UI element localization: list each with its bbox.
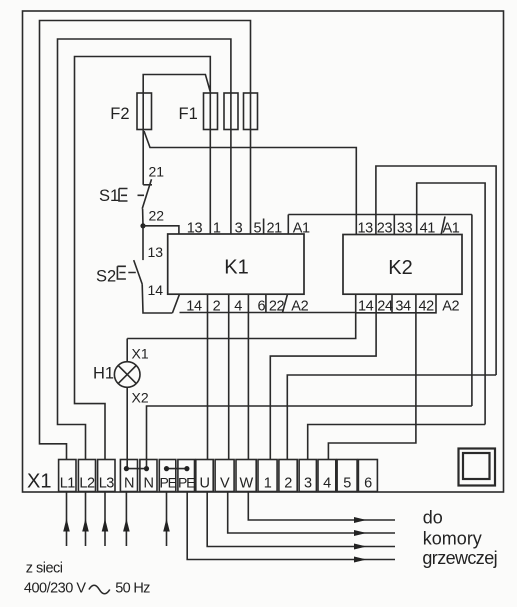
terminal X1:L2 [78,460,95,492]
terminal X1:PE1 [159,460,176,492]
terminal X1:L1 [59,460,76,492]
terminal X1:6 [358,460,377,492]
wire F2 tap from L3 phase [143,75,210,94]
svg-text:S1: S1 [99,187,119,205]
S1 actuator E [119,189,144,202]
svg-text:6: 6 [258,299,266,315]
svg-text:13: 13 [148,244,164,260]
terminal X1:5 [337,460,357,492]
K1 tick 5|21 top [263,219,265,235]
svg-text:N: N [144,476,154,492]
wire latch row (K1:14 - K1:A2 - K2:14) [180,312,356,314]
junction dot PE1 [164,466,169,471]
svg-text:4: 4 [234,299,242,315]
K2 wire 41 stub up [417,183,485,425]
svg-text:grzewczej: grzewczej [422,548,497,568]
node A junction dot [140,223,145,228]
arrowhead up L3 [102,519,109,532]
fuse F1 pole1 [204,93,218,130]
contactor K2 box [343,235,462,295]
arrowhead right PE [354,557,367,563]
K1 tick 6|22 bottom [265,294,267,312]
lamp H1 [114,362,140,388]
svg-text:U: U [200,476,210,492]
wire node to K1:13 [143,226,179,234]
svg-text:21: 21 [267,221,283,237]
switch S2 (NO start button) [142,226,144,260]
fuse F1 pole3 [244,93,258,130]
svg-text:L3: L3 [99,476,115,492]
wire F2 branch to K2:13 [144,131,356,235]
wire K1:6 to X1:W [247,294,249,459]
wire U to heating chamber [207,492,395,547]
terminal X1:N1 [120,460,137,492]
svg-text:4: 4 [323,476,331,492]
svg-text:do: do [423,508,443,528]
jumper N-N [126,468,146,470]
svg-text:50 Hz: 50 Hz [115,581,150,597]
switch S1 (NC stop button) [143,184,152,186]
svg-text:21: 21 [149,164,165,180]
svg-text:S2: S2 [96,268,116,286]
svg-text:F2: F2 [110,105,129,123]
K2 tick 23|33 top [393,215,395,235]
wire K2:24 to X1:1 [270,294,376,459]
svg-text:22: 22 [149,208,165,224]
wire F1 pole2 to K1:3 [230,93,232,234]
wire N bus X1:N2 to K2:A1 [147,406,472,469]
svg-text:41: 41 [420,221,436,237]
terminal X1:U [196,460,213,492]
PE symbol square-in-square [459,449,496,486]
svg-text:komory: komory [423,529,482,549]
svg-text:24: 24 [377,299,393,315]
svg-text:V: V [220,476,230,492]
wire up-arrow L3 [104,492,106,546]
svg-text:34: 34 [395,299,411,315]
wire up-arrow L1 [66,492,68,546]
svg-text:3: 3 [304,476,312,492]
svg-text:X1: X1 [132,346,149,362]
svg-text:L1: L1 [60,476,76,492]
wire V to heating chamber [228,492,395,533]
border frame [23,11,504,492]
jumper PE-PE [167,468,187,470]
terminal X1:2 [279,460,297,492]
wire up-arrow L2 [85,492,87,546]
wire up-arrow PE [166,492,168,546]
svg-text:W: W [240,476,254,492]
arrowhead up N [123,519,130,532]
junction dot N1 [124,466,129,471]
wire PE2 to heating chamber [187,492,395,560]
svg-text:A1: A1 [293,221,310,237]
wire K2:A1 down right side to N bus [471,215,473,407]
wire slash S2/latch to K1:14 [172,294,179,313]
terminal X1:1 [258,460,277,492]
K1 wire A2 slash [283,294,288,312]
sine symbol 50 Hz [89,585,110,594]
wire K2:23 branch down to X1:2 [287,375,496,460]
wire F2 to S1 [142,93,144,185]
svg-text:A1: A1 [443,221,460,237]
svg-text:A2: A2 [291,299,308,315]
svg-text:14: 14 [148,282,164,298]
svg-text:6: 6 [364,476,372,492]
svg-text:z sieci: z sieci [26,560,63,576]
wire F1 pole3 to K1:5 [250,93,252,234]
svg-text:K2: K2 [388,257,412,279]
svg-text:13: 13 [358,221,374,237]
K2 bottom row cell line [356,294,437,313]
contactor K1 box [168,234,304,294]
K2 wire A1 slash [441,217,445,235]
K2 tick 24|34 bottom [391,294,393,313]
svg-text:X1: X1 [27,471,51,493]
svg-text:5: 5 [254,221,262,237]
fuse F2 [137,93,152,130]
wire K2:14 to lamp node [127,294,356,338]
arrowhead right W [354,517,367,523]
svg-text:PE: PE [178,475,195,491]
svg-text:13: 13 [187,221,203,237]
svg-text:N: N [124,476,134,492]
svg-text:H1: H1 [93,365,114,383]
terminal X1:3 [299,460,316,492]
junction dot N2 [144,466,149,471]
wire lamp X1 lead [126,339,128,362]
arrowhead up PE [163,519,170,532]
svg-text:2: 2 [213,299,221,315]
terminal X1:V [215,460,234,492]
svg-text:5: 5 [343,476,351,492]
svg-text:A2: A2 [442,299,459,315]
svg-text:400/230 V: 400/230 V [24,581,86,597]
terminal X1:W [236,460,256,492]
svg-text:L2: L2 [79,476,95,492]
arrowhead up L2 [82,519,89,532]
K1 wire A1 stub [287,215,289,235]
wire K2:41 branch down to X1:3 [308,425,485,460]
svg-text:1: 1 [213,221,221,237]
terminal X1:4 [318,460,336,492]
wire L3 riser (X1:L3 to F1 pole1) [75,57,211,460]
wire S2 to latch row [142,284,172,313]
svg-text:K1: K1 [224,257,248,279]
wire L2 riser (X1:L2 to F1 pole2) [58,39,231,460]
svg-text:2: 2 [284,476,292,492]
svg-text:33: 33 [397,221,413,237]
wire lamp X2 lead to X1:N1 [126,387,128,468]
wire K1:A1 bus to K2:41 and on to corner [288,214,472,216]
svg-text:42: 42 [419,299,435,315]
svg-text:14: 14 [358,299,374,315]
svg-text:22: 22 [269,299,285,315]
terminal X1:N2 [140,460,157,492]
svg-text:F1: F1 [179,105,198,123]
K2 wire 23 stub up [376,166,496,375]
fuse F1 pole2 [224,93,238,130]
svg-text:14: 14 [186,299,202,315]
wire F1 pole1 to K1:1 [209,93,211,234]
wire K2:42 to X1:4 [328,294,416,459]
terminal X1:PE2 [178,460,195,492]
wire K1:2 to X1:U [207,294,209,459]
terminal X1:L3 [98,460,115,492]
wire S1 to node [142,209,144,226]
svg-text:3: 3 [235,221,243,237]
S2 actuator E [117,266,135,279]
wire up-arrow N [125,492,127,546]
wire K1:4 to X1:V [228,294,230,459]
arrowhead up L1 [63,519,70,532]
arrowhead right V [354,530,367,536]
junction dot PE2 [184,466,189,471]
svg-text:X2: X2 [132,390,149,406]
wire W to heating chamber [248,492,395,520]
svg-text:PE: PE [159,475,176,491]
arrowhead right U [354,544,367,550]
svg-text:23: 23 [377,221,393,237]
wire L1 riser (X1:L1 to F1 pole3) [40,21,251,460]
svg-text:1: 1 [264,476,272,492]
